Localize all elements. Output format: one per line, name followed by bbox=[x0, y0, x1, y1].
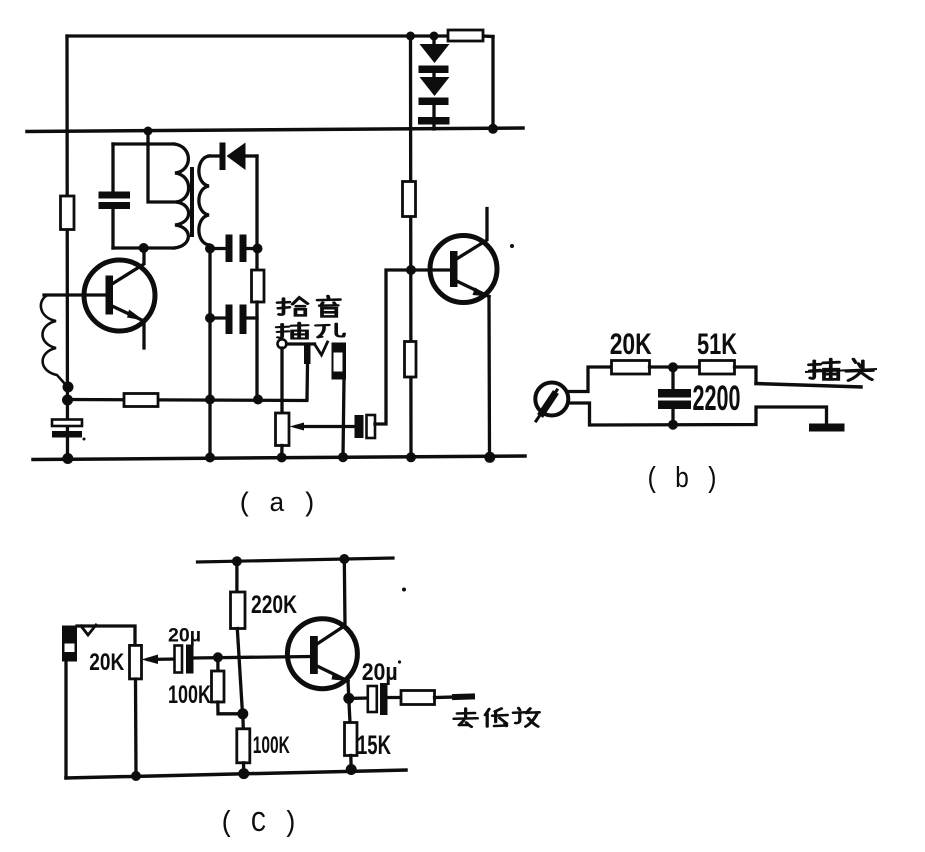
wire secondary bottom column bbox=[209, 245, 210, 458]
wire tank cap left upper bbox=[111, 144, 114, 192]
capacitor C7 20u bbox=[175, 646, 183, 673]
stray speck c bbox=[402, 588, 406, 592]
node R3 bottom y399 bbox=[253, 395, 263, 405]
transistor Q3 bbox=[287, 619, 357, 689]
wire RP1 wiper bbox=[297, 425, 355, 428]
capacitor C4 bbox=[52, 420, 82, 427]
svg-text:20µ: 20µ bbox=[362, 659, 398, 686]
node middle column ground bbox=[406, 452, 416, 462]
wire Q2 emitter bbox=[457, 281, 490, 297]
node R4 left bbox=[62, 395, 73, 406]
jack J1 spring contact bbox=[315, 342, 328, 355]
diode D2 bbox=[432, 73, 435, 78]
wire bottom ground rail bbox=[33, 456, 525, 460]
node top rail junction bbox=[406, 32, 415, 41]
node collector tap bbox=[139, 243, 149, 253]
potentiometer RP2 20K bbox=[130, 645, 142, 679]
jack J1 tip contact bbox=[278, 339, 287, 348]
jack J2 spring mark bbox=[81, 625, 96, 635]
wire tank cap left lower bbox=[111, 209, 114, 248]
svg-text:20K: 20K bbox=[89, 649, 125, 676]
node cap C2 right bbox=[253, 244, 263, 254]
node R12 ground bbox=[346, 764, 357, 775]
wire top supply rail bbox=[67, 34, 449, 37]
diode D3 detector bbox=[220, 143, 226, 171]
resistor R1 left bias bbox=[61, 196, 75, 230]
diode D1 bbox=[432, 36, 435, 45]
node coil bottom bbox=[63, 382, 74, 393]
wire top rail c bbox=[198, 558, 394, 562]
capacitor C3 bbox=[210, 316, 226, 319]
wire diode chain tail bbox=[432, 105, 435, 117]
wire R2 right down bbox=[491, 37, 494, 130]
pickup M1 bbox=[535, 383, 568, 416]
svg-text:( C ): ( C ) bbox=[219, 807, 298, 840]
node Q3 collector top bbox=[339, 554, 349, 564]
node 220K top bbox=[232, 556, 242, 566]
svg-text:2200: 2200 bbox=[693, 379, 741, 418]
wire center-tap drop bbox=[148, 131, 176, 202]
label 插孔 (jack) bbox=[277, 323, 308, 339]
label 插头 (plug) bbox=[809, 359, 839, 379]
capacitor C6 2200 bbox=[671, 367, 674, 389]
capacitor C5 electrolytic bbox=[355, 415, 364, 438]
node mid rail right junction bbox=[488, 124, 498, 134]
svg-text:20µ: 20µ bbox=[168, 626, 201, 647]
capacitor C2 bbox=[210, 247, 226, 250]
svg-text:( a ): ( a ) bbox=[237, 490, 317, 520]
node R11 ground bbox=[238, 768, 249, 779]
node mid rail tap bbox=[144, 127, 153, 136]
wire plug tip lead bbox=[735, 367, 757, 384]
node R10 R11 junction bbox=[237, 708, 248, 719]
ground chassis bar bbox=[809, 424, 845, 432]
wire bottom rail c bbox=[66, 770, 406, 778]
resistor R8 51K bbox=[700, 361, 735, 375]
wire secondary top bbox=[209, 154, 220, 157]
node column ground bbox=[205, 453, 215, 463]
resistor R11 100K lower bbox=[241, 714, 245, 729]
inductor L1 feedback coil bbox=[41, 296, 65, 384]
node secondary bottom bbox=[205, 244, 215, 254]
svg-text:51K: 51K bbox=[697, 328, 737, 361]
node Q2 base bbox=[406, 265, 416, 275]
wire J1 body to ground bbox=[343, 380, 344, 458]
wire tank top bbox=[113, 142, 174, 145]
label 拾音 (pickup) bbox=[278, 298, 308, 316]
resistor R7 20K bbox=[612, 361, 650, 375]
transistor Q1 bbox=[84, 260, 155, 331]
wire output lead bbox=[435, 695, 456, 699]
node Q3 emitter bbox=[343, 693, 354, 704]
label 去低放 (to AF amp) bbox=[454, 709, 477, 727]
resistor R2 top bbox=[483, 34, 493, 38]
node J1 ground bbox=[338, 452, 348, 462]
wire R7 to R8 bbox=[650, 365, 700, 368]
wire Q2 collector bbox=[457, 209, 488, 260]
resistor R6 bbox=[405, 342, 417, 378]
resistor R3 bbox=[252, 270, 265, 302]
jack J1 socket body bbox=[332, 343, 347, 380]
wire Q1 base lead bbox=[44, 293, 106, 296]
jack J2 input bbox=[62, 626, 77, 662]
resistor R13 output bbox=[401, 691, 435, 705]
wire RP2 wiper bbox=[148, 657, 175, 661]
node RP2 ground bbox=[131, 771, 141, 781]
wire R3 to C3 bbox=[255, 302, 258, 400]
resistor R9 220K bbox=[235, 561, 238, 592]
wire Q1 emitter bbox=[112, 306, 144, 321]
node column y399 bbox=[205, 395, 215, 405]
svg-text:20K: 20K bbox=[610, 328, 652, 361]
wire J2 to RP2 bbox=[77, 626, 135, 645]
wire J2 ground bbox=[64, 662, 67, 779]
node diode branch junction bbox=[430, 32, 439, 41]
node C3 left bbox=[205, 313, 215, 323]
svg-text:100K: 100K bbox=[168, 681, 211, 709]
wire mid rail bbox=[27, 128, 523, 132]
node C6 top bbox=[668, 362, 678, 372]
stray speck bbox=[83, 438, 86, 441]
wire C7 to base bbox=[194, 657, 311, 659]
transistor Q2 bbox=[430, 236, 497, 303]
wire C5 to Q2 base bbox=[375, 270, 411, 424]
resistor R10 100K upper bbox=[216, 657, 219, 671]
wire Q2 base lead bbox=[411, 268, 450, 271]
potentiometer RP1 bbox=[280, 348, 283, 413]
node C4 ground bbox=[62, 453, 73, 464]
wire right loop column bbox=[255, 156, 258, 270]
wire J1 tip lead bbox=[287, 342, 315, 345]
resistor R12 15K bbox=[349, 698, 350, 722]
transformer T1 core bbox=[190, 169, 194, 235]
resistor R5 bbox=[403, 182, 416, 217]
capacitor C1 tank bbox=[99, 192, 131, 199]
wire M1 top lead bbox=[568, 367, 612, 392]
wire tank bottom bbox=[113, 246, 174, 249]
svg-text:220K: 220K bbox=[251, 591, 297, 619]
wire Q1 collector bbox=[112, 248, 144, 284]
svg-text:15K: 15K bbox=[357, 730, 391, 760]
node C6 bottom bbox=[668, 420, 678, 430]
wire middle column bbox=[409, 36, 413, 458]
svg-text:100K: 100K bbox=[253, 732, 290, 759]
node RP1 ground bbox=[277, 453, 287, 463]
capacitor C8 20u output bbox=[349, 696, 368, 700]
wire Q3 collector bbox=[317, 559, 345, 644]
resistor R4 bbox=[68, 400, 307, 401]
inductor T1 secondary bbox=[199, 156, 209, 245]
wire left column bbox=[65, 36, 69, 458]
node base c bbox=[213, 652, 223, 662]
svg-text:( b ): ( b ) bbox=[645, 463, 719, 496]
wire C8 to R13 bbox=[388, 696, 402, 699]
wire M1 bottom lead bbox=[568, 403, 827, 425]
wire Q3 emitter bbox=[317, 666, 348, 681]
jack J1 frame contact bar bbox=[304, 344, 311, 364]
node Q2 emitter ground bbox=[484, 452, 495, 463]
inductor T1 primary bbox=[174, 144, 189, 248]
